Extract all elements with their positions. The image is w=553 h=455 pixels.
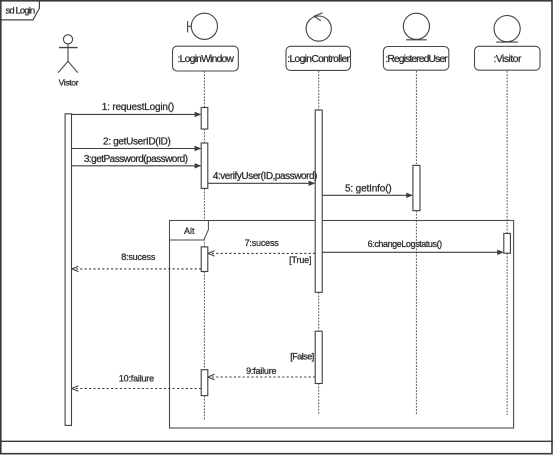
activation bar Visitor <box>504 233 511 253</box>
activation bar LoginWindow 3 <box>201 247 208 272</box>
svg-text::LoginWindow: :LoginWindow <box>178 54 235 65</box>
message 3: getPassword(password) <box>72 165 196 167</box>
:LoginWindow name box <box>173 46 239 71</box>
actor Vistor torso <box>67 44 69 61</box>
message 5: getInfo() <box>322 194 407 196</box>
message 9: failure (return) <box>212 376 315 378</box>
message 2: getUserID(ID) <box>72 148 196 150</box>
control symbol :LoginController <box>306 13 331 41</box>
svg-text:1: requestLogin(): 1: requestLogin() <box>102 102 174 113</box>
activation bar LoginWindow 1 <box>201 108 208 130</box>
lifeline dashed :LoginController <box>318 71 320 415</box>
boundary symbol :LoginWindow <box>188 13 218 39</box>
svg-text:4:verifyUser(ID,password): 4:verifyUser(ID,password) <box>213 171 317 182</box>
svg-text:10:failure: 10:failure <box>119 374 154 384</box>
sd frame bottom line <box>0 440 553 442</box>
svg-text:7:sucess: 7:sucess <box>245 238 280 248</box>
svg-text:[False]: [False] <box>290 351 314 361</box>
entity symbol :RegisteredUser <box>403 13 429 40</box>
svg-text::RegisteredUser: :RegisteredUser <box>385 54 448 65</box>
:RegisteredUser name box <box>383 47 448 71</box>
message 7: sucess (return) <box>212 252 315 254</box>
svg-text:Vistor: Vistor <box>59 77 79 87</box>
svg-text:sd Login: sd Login <box>6 6 35 17</box>
:Visitor name box <box>475 46 541 70</box>
activation bar actor <box>65 114 71 426</box>
actor Vistor head <box>63 35 72 44</box>
svg-text:3:getPassword(password): 3:getPassword(password) <box>84 154 188 165</box>
message 1: requestLogin() <box>72 113 196 115</box>
entity symbol :Visitor <box>494 16 520 43</box>
lifeline dashed :Visitor <box>506 71 508 415</box>
svg-text:2: getUserID(ID): 2: getUserID(ID) <box>103 137 171 148</box>
actor Vistor legs <box>58 61 78 72</box>
svg-text:8:sucess: 8:sucess <box>121 252 156 262</box>
activation bar RegisteredUser <box>413 165 420 210</box>
actor Vistor arms <box>59 47 78 49</box>
activation bar LoginController 2 <box>315 331 322 383</box>
activation bar LoginController 1 <box>315 110 322 292</box>
sd Login pentagon <box>1 1 39 20</box>
:LoginController name box <box>286 46 351 70</box>
svg-text:5: getInfo(): 5: getInfo() <box>345 184 392 195</box>
activation bar LoginWindow 2 <box>201 143 208 188</box>
svg-text:[True]: [True] <box>289 255 311 265</box>
lifeline dashed :LoginWindow <box>203 71 205 421</box>
svg-text:9:failure: 9:failure <box>246 366 276 376</box>
activation bar LoginWindow 4 <box>201 370 208 396</box>
svg-text::LoginController: :LoginController <box>287 54 350 65</box>
alt frame <box>170 221 514 429</box>
lifeline dashed :RegisteredUser <box>415 71 417 415</box>
svg-text:6:changeLogstatus(): 6:changeLogstatus() <box>368 239 442 249</box>
svg-text:Alt: Alt <box>184 226 195 236</box>
message 6: changeLogstatus() <box>322 251 498 253</box>
message 10: failure (return) <box>75 388 201 390</box>
message 4: verifyUser(ID,password) <box>208 182 310 184</box>
svg-text::Visitor: :Visitor <box>493 54 521 65</box>
message 8: sucess (return) <box>75 268 201 270</box>
alt pentagon label box <box>170 221 209 241</box>
